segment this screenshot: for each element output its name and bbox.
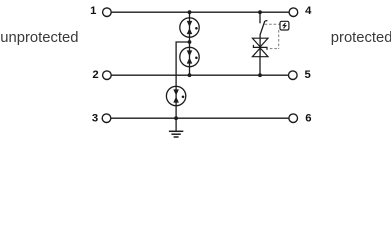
- thermal disconnect switch: [260, 21, 268, 36]
- junction: middle GDT on line 2: [188, 73, 192, 77]
- wire: middle GDT to line 2: [189, 67, 191, 76]
- ground: [169, 131, 183, 137]
- terminal 1: [103, 8, 112, 17]
- terminal 6: [289, 114, 298, 123]
- wire: lower GDT to line 3 and ground: [175, 106, 177, 131]
- wire: branch from GDT midpoint to ground leg: [176, 42, 189, 86]
- junction: node between GDTs: [188, 40, 192, 44]
- svg-text:1: 1: [90, 5, 96, 17]
- junction: protection branch on line 1: [258, 10, 262, 14]
- dashed link: diode to indicator leg: [270, 48, 279, 50]
- terminal 4: [289, 8, 298, 17]
- wire: line 3 (terminal 3 to terminal 6): [111, 117, 289, 119]
- gas discharge tube (upper): [180, 18, 199, 37]
- status indicator box: [280, 21, 289, 30]
- svg-text:2: 2: [92, 69, 98, 81]
- wire: between upper and middle gas discharge tubes: [189, 37, 191, 47]
- junction: protection branch on line 2: [258, 73, 262, 77]
- terminal 5: [289, 71, 298, 80]
- svg-text:5: 5: [305, 69, 311, 81]
- svg-text:protected: protected: [331, 30, 391, 46]
- wire: disconnect to suppressor diode: [259, 35, 261, 38]
- dashed link: indicator down leg: [278, 30, 280, 49]
- junction: GDT stack on line 1: [188, 10, 192, 14]
- terminal 2: [103, 71, 112, 80]
- wire: line 1 down to thermal disconnect: [259, 12, 261, 23]
- wire: suppressor diode to line 2: [259, 57, 261, 75]
- svg-text:unprotected: unprotected: [0, 30, 78, 46]
- gas discharge tube (lower, to ground): [166, 86, 185, 105]
- svg-text:3: 3: [92, 112, 98, 124]
- svg-text:6: 6: [305, 112, 311, 124]
- dashed link: disconnect to status indicator: [265, 23, 280, 25]
- suppressor diode (bidirectional TVS): [252, 38, 268, 57]
- wire: line 1 (terminal 1 to terminal 4): [111, 11, 289, 13]
- wire: line 2 (terminal 2 to terminal 5): [111, 74, 289, 76]
- svg-text:4: 4: [305, 5, 312, 17]
- junction: ground leg on line 3: [174, 116, 178, 120]
- wire: line 1 to gas discharge tube stack: [189, 12, 191, 18]
- gas discharge tube (middle): [180, 47, 199, 66]
- terminal 3: [102, 114, 111, 123]
